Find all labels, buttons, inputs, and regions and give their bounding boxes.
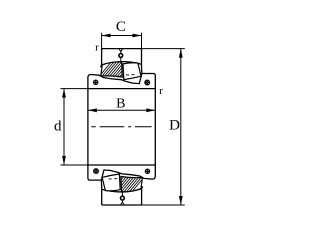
dimension d extension lines <box>61 89 88 165</box>
dimension D extension lines <box>142 49 185 205</box>
oil hole circle <box>119 54 123 58</box>
roller right (white) <box>123 63 141 80</box>
dimension D top arrow <box>179 49 183 58</box>
dimension d line <box>63 89 65 165</box>
oil hole stem upper <box>120 52 122 54</box>
cage rivet right <box>144 80 150 86</box>
dimension d bottom arrow <box>62 156 66 165</box>
outer ring top section <box>101 49 142 74</box>
oil groove notch <box>119 49 122 52</box>
bottom bearing section (180deg rotation) <box>88 165 155 205</box>
dimension C line <box>102 35 142 37</box>
roller hatching <box>95 58 144 82</box>
dimension B line <box>88 109 155 111</box>
dimension B left arrow <box>88 108 97 112</box>
dimension C right arrow <box>133 34 142 38</box>
svg-text:d: d <box>54 118 62 134</box>
inner ring left face line <box>87 88 89 166</box>
bearing cross-section drawing <box>0 0 260 226</box>
roller left (hatched) <box>101 62 123 77</box>
svg-text:B: B <box>116 97 125 112</box>
dimension B right arrow <box>146 108 155 112</box>
dimension C extension lines <box>102 33 142 49</box>
centerline <box>91 126 151 128</box>
inner ring top section <box>88 74 155 89</box>
inner ring right face line <box>154 88 156 166</box>
dimension D bottom arrow <box>179 196 183 205</box>
svg-text:r: r <box>95 42 99 54</box>
dimension D line <box>180 49 182 205</box>
svg-text:C: C <box>116 19 126 35</box>
dimension d top arrow <box>62 89 66 98</box>
cage rivet left <box>93 80 99 86</box>
svg-text:D: D <box>169 118 180 134</box>
oil hole stem lower <box>120 58 122 62</box>
svg-text:r: r <box>159 85 163 97</box>
dimension C left arrow <box>102 34 111 38</box>
roller axis dashes <box>126 74 135 76</box>
top bearing section <box>88 49 155 89</box>
